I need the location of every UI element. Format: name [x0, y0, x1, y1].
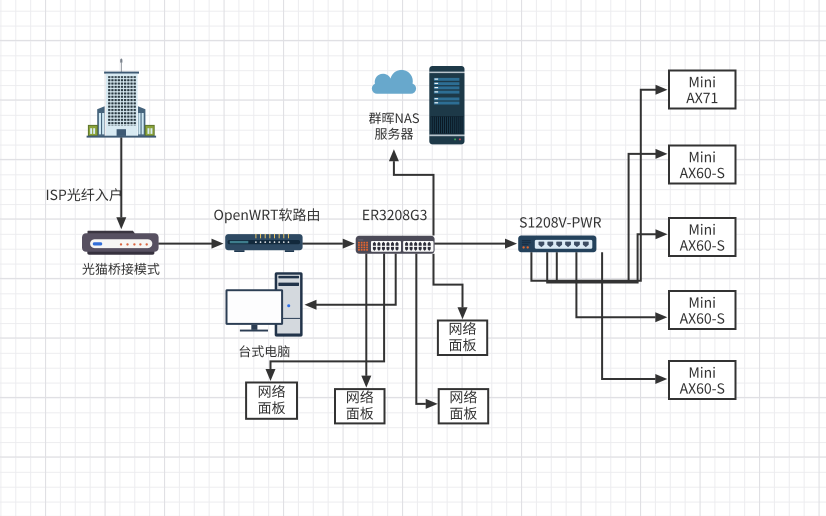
label AX60-S 5: [680, 383, 725, 394]
label 光猫桥接模式: [82, 263, 159, 275]
wire S1208V to Mini AX71: [531, 90, 655, 281]
arrowhead into modem: [116, 217, 126, 229]
switch ER3208G3: [356, 236, 435, 254]
wire ER3208G3 to S1208V: [435, 243, 505, 245]
label 群晖NAS: [369, 112, 419, 124]
arrowhead into ER3208G3: [343, 239, 355, 249]
wire ER port to panel A: [271, 254, 385, 369]
arrowhead into router: [212, 239, 224, 249]
label AX60-S 3: [680, 240, 725, 251]
arrowhead into PC: [305, 300, 317, 310]
label 网络 B: [347, 390, 373, 403]
ISP building: [87, 58, 157, 137]
wire modem to router: [159, 243, 212, 245]
wire S1208V to Mini AX60-S 2: [547, 154, 655, 283]
wire building to modem: [120, 138, 122, 218]
label OpenWRT软路由: [214, 208, 319, 223]
label AX71 1: [686, 93, 717, 103]
box Mini AX60-S 5: [669, 361, 736, 399]
label Mini 1: [690, 76, 715, 87]
box 网络面板 B: [335, 389, 385, 423]
box Mini AX60-S 2: [669, 146, 736, 184]
OpenWRT soft router: [225, 234, 302, 252]
desktop PC tower: [275, 272, 303, 336]
arrowhead into S1208V: [505, 239, 517, 249]
wire S1208V to Mini AX60-S 5: [602, 252, 655, 379]
arrowhead into Mini AX60-S 2: [656, 149, 668, 159]
label 服务器: [375, 128, 413, 140]
label ER3208G3: [363, 210, 426, 221]
label 面板 C: [450, 407, 477, 420]
wire S1208V to Mini AX60-S 4: [576, 252, 655, 317]
box Mini AX60-S 3: [669, 218, 736, 256]
optical modem 光猫: [82, 231, 159, 255]
label AX60-S 2: [680, 168, 725, 179]
label 网络 A: [259, 385, 285, 398]
arrowhead into panel B: [361, 376, 371, 388]
label 网络 D: [450, 322, 476, 335]
label Mini 5: [690, 367, 715, 378]
box Mini AX71 1: [669, 71, 736, 109]
arrowhead into panel C: [426, 399, 438, 409]
arrowhead into Mini AX71: [656, 85, 668, 95]
wire ER3208G3 to NAS: [394, 161, 434, 235]
arrowhead into panel D: [458, 307, 468, 319]
label 网络 C: [451, 390, 477, 403]
switch S1208V-PWR: [518, 236, 596, 253]
wire S1208V to Mini AX60-S 3: [557, 234, 656, 282]
label 面板 B: [347, 407, 374, 420]
label Mini 3: [690, 224, 715, 235]
box Mini AX60-S 4: [669, 291, 736, 329]
arrowhead into Mini AX60-S 3: [656, 229, 668, 239]
wire ER port to panel B: [365, 254, 367, 376]
box 网络面板 D: [438, 321, 487, 356]
label S1208V-PWR: [520, 217, 601, 228]
label 面板 D: [449, 338, 476, 351]
label ISP光纤入户: [47, 188, 121, 201]
wire router to ER3208G3: [303, 243, 343, 245]
arrowhead into Mini AX60-S 5: [655, 374, 667, 384]
desktop PC monitor: [226, 289, 284, 331]
wire ER port to PC: [317, 254, 396, 305]
label 面板 A: [258, 401, 285, 414]
arrowhead up into NAS label: [389, 149, 399, 161]
wire ER port to panel C: [416, 254, 425, 404]
box 网络面板 C: [439, 389, 489, 423]
label AX60-S 4: [680, 313, 725, 324]
label Mini 4: [690, 297, 715, 308]
arrowhead into panel A: [266, 369, 276, 381]
NAS server tower: [429, 66, 464, 144]
arrowhead into Mini AX60-S 4: [655, 312, 667, 322]
wire ER port to panel D: [434, 254, 463, 307]
label Mini 2: [690, 151, 715, 162]
label 台式电脑: [240, 345, 290, 357]
NAS cloud: [372, 70, 416, 94]
box 网络面板 A: [246, 383, 297, 419]
